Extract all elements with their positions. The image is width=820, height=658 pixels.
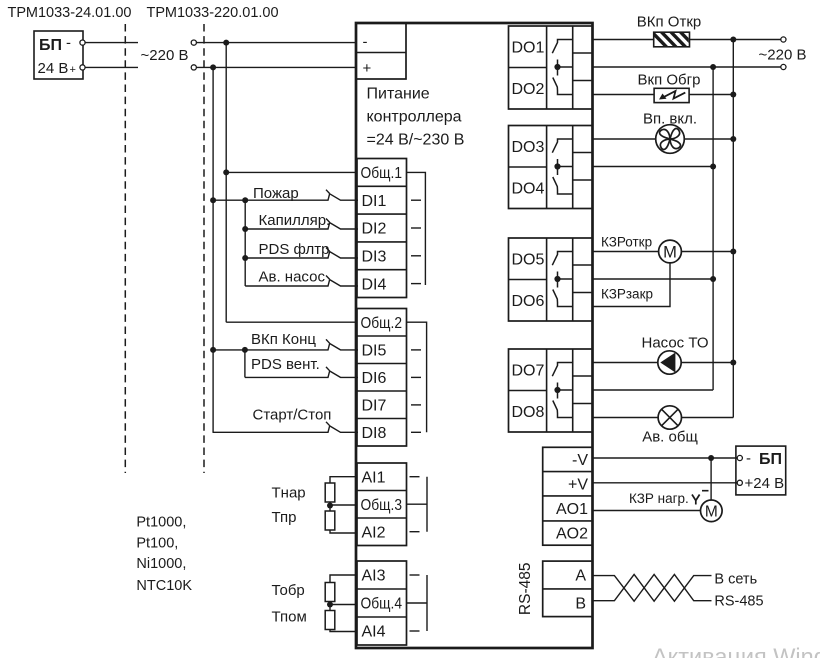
internal stub DI8 (411, 431, 421, 433)
svg-text:-V: -V (572, 452, 588, 469)
wire DO1 to heater (593, 39, 654, 41)
wire Av. nasos to DI4 (245, 285, 322, 287)
wire motor to bus A (681, 251, 733, 253)
svg-text:Общ.3: Общ.3 (361, 497, 403, 514)
wire -V to BP right (593, 457, 738, 459)
svg-text:~220 В: ~220 В (759, 47, 807, 64)
svg-text:Насос ТО: Насос ТО (641, 335, 708, 352)
svg-text:-: - (746, 450, 751, 467)
svg-text:AI1: AI1 (362, 469, 386, 486)
svg-text:AO2: AO2 (556, 526, 588, 543)
twisted pair wire A (593, 574, 712, 601)
svg-text:Капилляр.: Капилляр. (259, 212, 331, 229)
wire lamp to bus A end (682, 417, 734, 419)
wire bus DI feed (212, 67, 214, 432)
svg-text:В сеть: В сеть (714, 572, 757, 588)
wire VKp Konts to DI5 (213, 349, 323, 351)
wire BP plus to ~220V gap (85, 66, 138, 68)
controller TRM1033 outline (356, 23, 593, 648)
motor M KZR (659, 240, 682, 263)
dashed boundary line right (203, 24, 205, 473)
junction DI bus / DI5 (210, 347, 216, 353)
svg-text:М: М (705, 504, 718, 521)
junction -V / motor 2 tap (708, 455, 714, 461)
svg-text:AO1: AO1 (556, 501, 588, 518)
wire DO2 to defrost heater (593, 94, 655, 96)
svg-text:DI5: DI5 (362, 342, 387, 359)
svg-text:ТРМ1033-24.01.00: ТРМ1033-24.01.00 (8, 5, 132, 21)
relay output block DO5/DO6 (509, 238, 593, 321)
svg-text:А: А (575, 568, 586, 585)
wire bus common (to Obsh.1 Obsh.2) (225, 43, 227, 323)
svg-text:DI1: DI1 (362, 193, 387, 210)
svg-text:ВКп Конц: ВКп Конц (251, 331, 316, 348)
svg-text:БП: БП (39, 37, 62, 54)
junction bus A / DO1 wire (730, 37, 736, 43)
internal stub DI1 (411, 199, 421, 201)
svg-text:Ав. общ: Ав. общ (642, 429, 698, 446)
svg-text:DO4: DO4 (512, 181, 545, 198)
svg-text:Тнар: Тнар (272, 485, 306, 502)
wire to Obsh.2 (226, 321, 357, 323)
internal stub DI3 (411, 255, 421, 257)
power supply unit BP right (736, 446, 786, 495)
svg-text:Ав. насос: Ав. насос (259, 269, 326, 286)
internal stub DI2 (411, 227, 421, 229)
wire AI1 to sensor chain (330, 477, 357, 483)
wire Start/Stop to DI8 (213, 431, 323, 433)
svg-text:Тобр: Тобр (272, 582, 305, 599)
wire bus A vertical (732, 40, 734, 418)
wire mains bottom to controller plus (196, 66, 356, 68)
svg-text:Общ.4: Общ.4 (361, 596, 403, 613)
terminal mains N (191, 65, 196, 70)
wire to Obsh.1 (226, 171, 357, 173)
svg-text:Общ.1: Общ.1 (361, 165, 403, 182)
svg-text:~220 В: ~220 В (141, 47, 189, 64)
resistor sensor Tpr (325, 511, 335, 530)
terminal block AI1 Obsh.3 AI2 (357, 463, 407, 546)
internal stub AI2 (410, 531, 420, 533)
wire pump to bus A (681, 362, 733, 364)
terminal ~220V N right (781, 64, 786, 69)
fan Vp. vkl. (656, 125, 685, 154)
svg-text:Вп. вкл.: Вп. вкл. (643, 111, 697, 128)
svg-text:AI3: AI3 (362, 568, 386, 585)
junction sub bus / DI2 (242, 226, 248, 232)
svg-text:+: + (70, 64, 76, 76)
wire DO3 to fan (593, 138, 656, 140)
controller power terminals box (356, 23, 406, 79)
internal stub DI6 (411, 376, 421, 378)
junction Obsh.3 tap (327, 503, 333, 509)
svg-text:КЗРоткр: КЗРоткр (601, 235, 652, 250)
motor M KZR nagr (701, 500, 723, 522)
relay output block DO3/DO4 (509, 126, 593, 209)
svg-text:Общ.2: Общ.2 (361, 315, 403, 332)
wire DO7/8 common to bus B end (593, 389, 714, 391)
svg-text:DO2: DO2 (512, 81, 545, 98)
internal common bracket Obsh.1 (407, 172, 426, 285)
svg-text:=24 В/~230 В: =24 В/~230 В (367, 132, 465, 149)
svg-text:AI4: AI4 (362, 624, 386, 641)
svg-text:М: М (663, 244, 677, 262)
svg-text:PDS вент.: PDS вент. (251, 356, 320, 373)
junction common bus / Obsh.1 (223, 169, 229, 175)
terminal block Obsh.2 DI5-DI8 (357, 309, 407, 447)
wire DO8 to lamp (593, 417, 659, 419)
pump Nasos TO (658, 351, 681, 374)
svg-text:AI2: AI2 (362, 525, 386, 542)
svg-text:Pt100,: Pt100, (136, 535, 178, 551)
terminal ~220V L right (781, 37, 786, 42)
wire DO6 KZRzakr to motor bottom (593, 263, 671, 307)
svg-text:КЗР нагр.: КЗР нагр. (629, 491, 689, 506)
svg-text:DI2: DI2 (362, 221, 387, 238)
wire PDS fltr to DI3 (245, 257, 322, 259)
svg-text:Ni1000,: Ni1000, (136, 556, 186, 572)
svg-text:DI3: DI3 (362, 249, 387, 266)
symbol Y minus (analog signal) (692, 491, 709, 505)
switch contact VKp Konts DI5 (322, 339, 358, 350)
relay output block DO1/DO2 (509, 26, 593, 109)
dashed boundary line left (124, 24, 126, 473)
switch contact Av. nasos DI4 (322, 276, 358, 287)
svg-text:Активация Wind: Активация Wind (652, 644, 820, 658)
svg-text:DO8: DO8 (512, 404, 545, 421)
svg-text:Питание: Питание (367, 86, 430, 103)
wire DO3/4 common to bus B (593, 166, 714, 168)
junction sub bus / DI3 (242, 255, 248, 261)
wire -V tap to motor 2 (710, 458, 712, 500)
svg-text:Старт/Стоп: Старт/Стоп (253, 407, 332, 424)
internal stub AI3 (410, 574, 420, 576)
svg-text:БП: БП (759, 451, 782, 468)
svg-text:DI8: DI8 (362, 425, 387, 442)
switch contact Kapillyar DI2 (322, 219, 358, 230)
svg-text:DO1: DO1 (512, 40, 545, 57)
wire DO1/2 common to mains (593, 66, 781, 68)
svg-text:-: - (363, 34, 368, 51)
wire Obsh.4 to chain (330, 604, 357, 606)
junction bus A / DO5 wire (730, 249, 736, 255)
switch contact PDS fltr DI3 (322, 248, 358, 259)
internal stub DI5 (411, 349, 421, 351)
internal stub AI4 (410, 630, 420, 632)
junction DI1 / sub bus (242, 197, 248, 203)
terminal BP plus (80, 65, 85, 70)
svg-text:ВКп Откр: ВКп Откр (637, 14, 701, 31)
wire Kapillyar to DI2 (245, 228, 322, 230)
power supply unit BP 24V (34, 31, 83, 79)
junction bus A / DO3 wire (730, 136, 736, 142)
svg-text:+V: +V (568, 477, 588, 494)
internal common bracket Obsh.4 (407, 575, 428, 631)
alarm lamp Av. obsh (658, 406, 681, 429)
svg-text:Тпр: Тпр (272, 509, 297, 526)
svg-text:В: В (575, 596, 586, 613)
junction bus B / DO3/4 common (710, 164, 716, 170)
svg-text:RS-485: RS-485 (714, 594, 763, 610)
junction mains top / common bus (223, 40, 229, 46)
wire bus B vertical (712, 67, 714, 390)
internal common bracket Obsh.3 (407, 477, 428, 532)
wire mains top to controller minus (196, 42, 356, 44)
wire Obsh.3 to chain (330, 504, 357, 506)
svg-text:-: - (66, 35, 71, 52)
internal common bracket Obsh.2 (407, 322, 427, 432)
wire sub bus DI2-DI4 (244, 200, 246, 286)
resistor sensor Tobr (325, 583, 335, 602)
svg-text:контроллера: контроллера (367, 109, 462, 126)
svg-text:DO6: DO6 (512, 293, 545, 310)
wire Pozhar to DI1 (213, 199, 323, 201)
wire DO7 to pump (593, 362, 658, 364)
wire DO5/6 common to bus B (593, 278, 714, 280)
wire between sensors 2 (329, 602, 331, 611)
terminal mains L (191, 40, 196, 45)
junction DI5 / sub bus 2 (242, 347, 248, 353)
defrost heater Vkp Obgr (arrow box) (654, 88, 689, 102)
wire +V to BP right (593, 482, 738, 484)
svg-text:Пожар: Пожар (253, 185, 299, 202)
resistor sensor Tnar (325, 483, 335, 502)
svg-text:Тпом: Тпом (272, 609, 307, 626)
wire fan to bus A (684, 138, 733, 140)
twisted pair wire B (593, 574, 712, 601)
svg-text:Pt1000,: Pt1000, (136, 515, 186, 531)
terminal block Obsh.1 DI1-DI4 (357, 159, 407, 298)
junction bus A / DO2 wire (730, 92, 736, 98)
wire sub bus 2 to DI6 (244, 350, 246, 378)
wire sensor chain to AI2 (330, 530, 357, 533)
junction Obsh.4 tap (327, 602, 333, 608)
relay output block DO7/DO8 (509, 349, 593, 432)
svg-text:ТРМ1033-220.01.00: ТРМ1033-220.01.00 (147, 5, 279, 21)
terminal block AI3 Obsh.4 AI4 (357, 561, 407, 645)
switch contact Pozhar DI1 (322, 190, 358, 201)
wire AO1 to motor 2 (593, 510, 701, 512)
svg-text:DO7: DO7 (512, 363, 545, 380)
wire AI3 to sensor chain (330, 575, 357, 583)
svg-text:DO5: DO5 (512, 252, 545, 269)
junction bus A / DO7 wire (730, 360, 736, 366)
svg-text:DI4: DI4 (362, 276, 387, 293)
wire between sensors 1 (329, 502, 331, 511)
junction DI bus / DI1 (210, 197, 216, 203)
junction bus B / DO5/6 common (710, 276, 716, 282)
wire heater to mains terminal (690, 39, 781, 41)
terminal BP right plus (737, 480, 742, 485)
svg-text:КЗРзакр: КЗРзакр (601, 287, 653, 302)
svg-text:RS-485: RS-485 (517, 563, 534, 616)
svg-text:DO3: DO3 (512, 139, 545, 156)
wire BP minus to ~220V gap (85, 42, 138, 44)
svg-text:24 В: 24 В (38, 60, 69, 77)
switch contact Start/Stop DI8 (322, 422, 358, 433)
internal stub AI1 (410, 476, 420, 478)
terminal block -V +V AO1 AO2 (543, 447, 593, 545)
junction mains bottom / DI feed bus (210, 64, 216, 70)
svg-text:+: + (363, 60, 372, 77)
wire sensor chain to AI4 (330, 630, 357, 632)
terminal BP right minus (737, 455, 742, 460)
wire PDS vent to DI6 (245, 376, 322, 378)
wire DO5 KZRotkr to motor (593, 251, 659, 253)
internal stub DI4 (411, 283, 421, 285)
terminal BP minus (80, 40, 85, 45)
svg-text:DI6: DI6 (362, 370, 387, 387)
switch contact PDS vent DI6 (322, 367, 358, 378)
svg-text:NTC10K: NTC10K (136, 578, 192, 594)
heater VKp Otkr (hatched) (650, 30, 697, 49)
svg-text:+24 В: +24 В (745, 475, 785, 492)
terminal block RS-485 A B (543, 561, 593, 617)
svg-text:DI7: DI7 (362, 397, 387, 414)
internal stub DI7 (411, 404, 421, 406)
svg-text:PDS флтр: PDS флтр (259, 241, 330, 258)
resistor sensor Tpom (325, 611, 335, 630)
junction bus B / common wire (710, 64, 716, 70)
svg-text:Вкп Обгр: Вкп Обгр (638, 72, 701, 89)
wire defrost to bus A (689, 94, 733, 96)
